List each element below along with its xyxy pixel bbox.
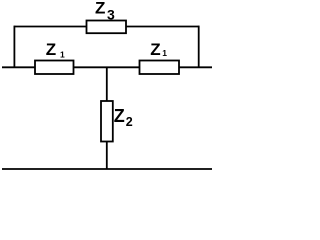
svg-text:Z: Z [95, 0, 105, 18]
wire center vertical branch [106, 67, 108, 169]
svg-text:Z: Z [114, 106, 125, 126]
svg-text:2: 2 [126, 115, 133, 129]
label Z2 [114, 106, 133, 129]
wire left vertical jog [13, 26, 15, 68]
impedance Z1 right (box) [140, 61, 180, 75]
svg-text:3: 3 [107, 6, 115, 22]
wire right vertical jog [198, 26, 200, 68]
label Z1 left [46, 40, 65, 60]
wire top rail [14, 26, 198, 28]
impedance Z2 (box) [101, 101, 113, 142]
svg-text:1: 1 [162, 48, 167, 58]
svg-text:1: 1 [60, 50, 65, 60]
impedance Z3 (box) [87, 21, 127, 34]
label Z1 right [150, 40, 167, 59]
label Z3 [95, 0, 115, 22]
wire main middle rail [2, 66, 212, 68]
wire bottom rail [2, 168, 212, 170]
svg-text:Z: Z [46, 40, 56, 59]
impedance Z1 left (box) [35, 61, 74, 75]
svg-text:Z: Z [150, 40, 160, 59]
